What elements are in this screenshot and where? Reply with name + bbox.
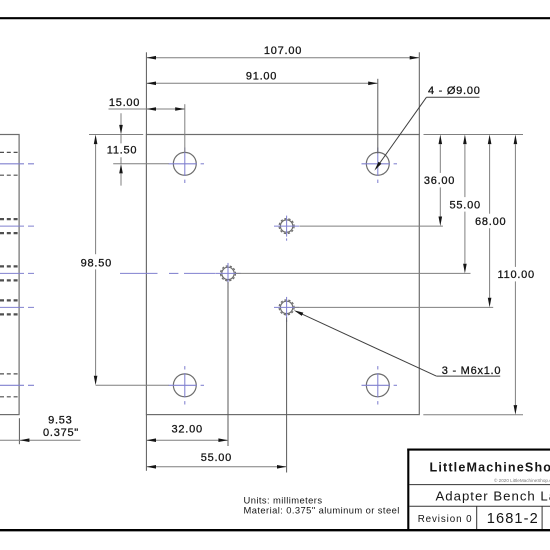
sheet top border bbox=[0, 17, 550, 19]
reference line upper M6 row bbox=[300, 225, 443, 227]
title block part name bbox=[436, 488, 550, 503]
centerline center row horizontal bbox=[120, 272, 215, 274]
svg-text:4 - Ø9.00: 4 - Ø9.00 bbox=[428, 85, 481, 97]
svg-text:Revision 0: Revision 0 bbox=[418, 514, 473, 525]
leader 4 - Ø9.00 bbox=[374, 85, 480, 170]
svg-text:98.50: 98.50 bbox=[81, 257, 112, 269]
dimension 107.00 extension lines bbox=[146, 52, 419, 134]
svg-text:15.00: 15.00 bbox=[109, 97, 140, 109]
svg-text:36.00: 36.00 bbox=[424, 175, 455, 187]
side view hidden lines upper M6 row bbox=[0, 219, 19, 233]
dimension 68.00 (right) bbox=[475, 135, 506, 308]
extension line side view right edge bbox=[18, 418, 20, 444]
dimension 98.50 bbox=[81, 135, 112, 386]
svg-text:© 2020 LittleMachineShop.com: © 2020 LittleMachineShop.com bbox=[494, 477, 550, 483]
title block inner lines bbox=[409, 485, 550, 529]
svg-text:Adapter Bench Lathe: Adapter Bench Lathe bbox=[436, 488, 550, 503]
dimension 91.00 bbox=[146, 70, 377, 85]
reference line lower M6 row bbox=[295, 306, 494, 308]
dimension 11.50 bbox=[107, 113, 137, 185]
reference line center row bbox=[236, 272, 471, 274]
title block part number bbox=[487, 511, 539, 527]
side view hidden lines bottom hole row bbox=[0, 374, 19, 397]
tapped hole M6 center bbox=[215, 263, 240, 288]
dimension 11.50 reference lines bbox=[89, 135, 169, 164]
side view centerline upper M6 row bbox=[0, 225, 34, 227]
note units bbox=[244, 494, 323, 505]
svg-text:32.00: 32.00 bbox=[172, 424, 203, 436]
svg-text:1681-2: 1681-2 bbox=[487, 511, 539, 527]
svg-text:11.50: 11.50 bbox=[107, 144, 137, 156]
right dims top reference line bbox=[424, 134, 524, 136]
svg-text:0.375": 0.375" bbox=[43, 427, 79, 439]
svg-text:110.00: 110.00 bbox=[498, 269, 535, 281]
front view plate outline bbox=[146, 135, 419, 415]
dimension 15.00 bbox=[109, 97, 185, 111]
hole bottom-right Ø9.00 bbox=[362, 366, 398, 404]
note material bbox=[244, 504, 400, 515]
extension line plate bottom-left bbox=[145, 415, 147, 471]
svg-text:9.53: 9.53 bbox=[48, 414, 72, 426]
side view hidden lines top hole row bbox=[0, 152, 19, 175]
dimension 9.53 / 0.375in bbox=[0, 414, 81, 442]
leader 3 - M6x1.0 bbox=[294, 310, 501, 377]
title block revision bbox=[418, 514, 473, 525]
tapped hole M6 lower bbox=[274, 297, 299, 322]
svg-text:55.00: 55.00 bbox=[450, 199, 481, 211]
sheet bottom border bbox=[0, 529, 550, 531]
svg-text:91.00: 91.00 bbox=[246, 70, 277, 82]
dimension 32.00 bbox=[146, 424, 228, 442]
dimension 36.00 (right) bbox=[424, 135, 455, 227]
hole bottom-left Ø9.00 bbox=[169, 366, 205, 404]
dimension 55.00 (bottom) bbox=[146, 452, 286, 468]
side view centerline lower M6 row bbox=[0, 306, 34, 308]
right dims bottom reference line bbox=[423, 414, 523, 416]
dimension 98.50 reference line bbox=[96, 384, 169, 386]
svg-text:3 - M6x1.0: 3 - M6x1.0 bbox=[442, 365, 501, 377]
extension line lower M6 down bbox=[286, 318, 288, 473]
dimension 110.00 (right) bbox=[498, 135, 535, 415]
dimension 55.00 (right) bbox=[450, 135, 481, 274]
dimension 15.00 extension line bbox=[184, 104, 186, 152]
side view centerline top hole row bbox=[0, 163, 34, 165]
dimension 107.00 bbox=[146, 45, 419, 60]
side view hidden lines lower M6 row bbox=[0, 300, 19, 314]
side view outline bbox=[0, 135, 19, 415]
extension line center hole down bbox=[227, 282, 229, 446]
side view centerline bottom hole row bbox=[0, 384, 34, 386]
svg-text:Material: 0.375" aluminum or s: Material: 0.375" aluminum or steel bbox=[244, 504, 400, 515]
side view hidden lines center M6 row bbox=[0, 266, 19, 280]
dimension 91.00 extension line bbox=[377, 79, 379, 154]
side view centerline center M6 row bbox=[0, 272, 34, 274]
tapped hole M6 upper bbox=[274, 216, 299, 241]
title block logo bbox=[430, 461, 550, 475]
svg-text:68.00: 68.00 bbox=[475, 216, 506, 228]
svg-text:55.00: 55.00 bbox=[201, 452, 232, 464]
hole top-left Ø9.00 bbox=[169, 148, 205, 184]
svg-text:107.00: 107.00 bbox=[264, 45, 302, 57]
svg-text:LittleMachineShop.com: LittleMachineShop.com bbox=[430, 461, 550, 475]
title block frame bbox=[407, 449, 550, 531]
hole top-right Ø9.00 bbox=[362, 148, 398, 184]
title block copyright bbox=[494, 477, 550, 483]
